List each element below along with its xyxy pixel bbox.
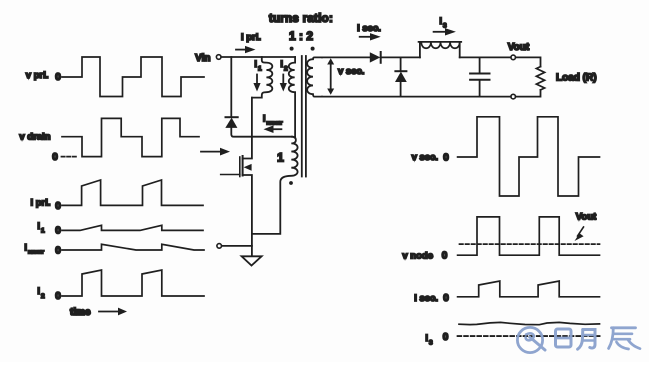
svg-text:Vout: Vout: [576, 212, 597, 223]
svg-text:i pri.: i pri.: [30, 198, 50, 209]
waveform i2 trace: [62, 270, 204, 296]
wire top rail primary: [221, 56, 295, 58]
waveform iRESET trace: [62, 244, 204, 250]
svg-text:i: i: [37, 221, 40, 232]
wire i3 zero dashed: [458, 335, 600, 337]
capacitor output C branch top: [479, 57, 481, 72]
watermark char chen: [612, 326, 636, 329]
wire freewheel diode branch top: [400, 57, 402, 71]
svg-text:v node: v node: [402, 251, 433, 262]
node Vout terminal: [511, 55, 516, 60]
wire secondary top rail left: [322, 56, 370, 58]
svg-text:RESET: RESET: [28, 250, 44, 256]
svg-text:0: 0: [55, 246, 61, 257]
svg-text:v sec.: v sec.: [338, 66, 364, 77]
svg-text:0: 0: [55, 226, 61, 237]
node output return terminal: [511, 94, 516, 99]
svg-text:1 : 2: 1 : 2: [289, 29, 313, 43]
svg-text:1: 1: [277, 151, 284, 165]
wire top rail inductor to Vout: [460, 56, 511, 58]
svg-text:turns ratio:: turns ratio:: [269, 13, 333, 25]
svg-text:i sec.: i sec.: [414, 293, 438, 304]
transistor Q1 gate bar: [239, 157, 241, 177]
arrow gate drive: [201, 151, 221, 153]
svg-text:0: 0: [442, 251, 448, 262]
inductor primary winding i2: [289, 57, 295, 137]
arrow i2 current: [282, 75, 284, 84]
svg-text:2: 2: [284, 66, 288, 73]
svg-text:i: i: [24, 243, 27, 254]
transformer core lines: [301, 56, 303, 177]
diode clamp (reset): [226, 116, 238, 118]
svg-text:0: 0: [55, 291, 61, 302]
node polarity dot primary: [290, 47, 294, 51]
wire return terminal to source rail: [222, 245, 252, 247]
arrow i pri.: [236, 49, 246, 51]
svg-text:Vin: Vin: [195, 53, 210, 64]
waveform v pri. trace: [62, 57, 204, 97]
transistor Q1 body arrow: [244, 164, 252, 171]
wire Q1 gate lead: [221, 174, 240, 176]
node Vin return terminal: [217, 244, 222, 249]
svg-text:i: i: [254, 59, 257, 70]
inductor primary winding i1: [252, 57, 272, 98]
arrow iRESET: [273, 128, 281, 130]
svg-text:i pri.: i pri.: [241, 32, 261, 43]
wire Vout level dashed: [460, 243, 600, 245]
svg-text:i: i: [263, 114, 266, 125]
capacitor branch bottom: [479, 81, 481, 97]
inductor reset winding 1: [252, 137, 298, 234]
svg-text:0: 0: [55, 72, 61, 83]
wire Q1 source to ground: [243, 175, 252, 256]
arrow v sec measurement: [330, 63, 332, 90]
svg-text:0: 0: [443, 153, 449, 164]
svg-text:3: 3: [429, 340, 433, 347]
transistor Q1 MOSFET drain wire: [243, 98, 252, 159]
inductor output L: [419, 42, 462, 58]
svg-text:i: i: [425, 333, 428, 344]
transistor Q1 channel bar: [242, 156, 244, 176]
arrow time: [99, 311, 118, 313]
waveform i sec. trace: [458, 281, 600, 297]
svg-text:v sec.: v sec.: [412, 152, 438, 163]
waveform v node trace: [458, 217, 600, 255]
capacitor output C: [470, 73, 489, 75]
svg-text:Vout: Vout: [508, 42, 530, 53]
waveform v sec. trace: [458, 117, 600, 196]
svg-text:0: 0: [443, 332, 449, 343]
node Vin terminal: [216, 55, 221, 60]
svg-text:1: 1: [41, 228, 45, 235]
node polarity dot reset winding: [289, 181, 293, 185]
wire freewheel diode to bottom rail: [400, 82, 402, 97]
svg-text:0: 0: [443, 293, 449, 304]
svg-text:time: time: [70, 307, 91, 318]
svg-text:i: i: [280, 59, 283, 70]
svg-text:i sec.: i sec.: [357, 23, 381, 34]
svg-text:i: i: [439, 16, 442, 27]
waveform i3 trace: [459, 322, 600, 324]
arrow i sec.: [360, 36, 371, 38]
svg-text:1: 1: [258, 66, 262, 73]
svg-text:0: 0: [55, 201, 61, 212]
arrow i1 current: [256, 75, 258, 84]
svg-text:v drain: v drain: [19, 132, 50, 143]
inductor secondary winding: [307, 57, 322, 96]
node polarity dot secondary: [311, 47, 315, 51]
svg-text:v pri.: v pri.: [26, 70, 49, 81]
resistor Load R: [536, 67, 544, 90]
diode freewheel: [395, 70, 406, 72]
waveform v drain trace: [62, 118, 199, 156]
wire clamp-diode branch: [230, 57, 232, 117]
arrow i3: [434, 31, 446, 33]
ground: [242, 256, 262, 265]
svg-text:Load (R): Load (R): [556, 73, 597, 84]
svg-text:RESET: RESET: [267, 121, 283, 127]
diode series rectifier: [370, 52, 381, 62]
watermark logo circle: [517, 327, 640, 352]
svg-text:i: i: [37, 286, 40, 297]
wire Vout to load: [516, 57, 541, 66]
watermark char ri: [556, 329, 572, 347]
watermark char yue: [583, 330, 595, 349]
wire load bottom: [516, 90, 541, 97]
waveform i pri. trace: [62, 180, 203, 205]
wire bottom rail secondary: [322, 96, 511, 98]
wire clamp diode to reset-winding rail: [231, 128, 292, 137]
wire v drain zero dashed stub: [62, 156, 78, 158]
svg-text:2: 2: [41, 293, 45, 300]
svg-text:0: 0: [52, 152, 58, 163]
waveform i1 trace: [62, 225, 203, 230]
arrow Vout level pointer: [578, 227, 584, 236]
wire top rail diode to inductor: [381, 56, 420, 58]
